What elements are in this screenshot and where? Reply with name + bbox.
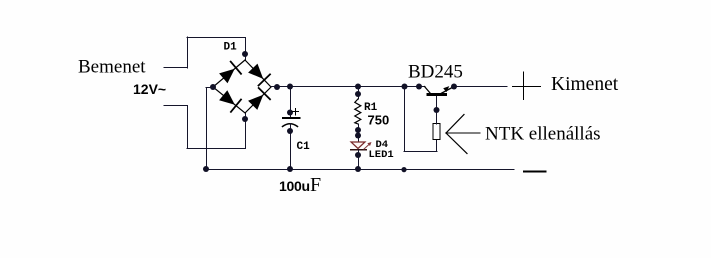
label: Bemenet: [78, 57, 146, 78]
node: transistor emitter junction: [451, 84, 457, 90]
wire: resistor to LED lead: [358, 124, 360, 142]
label: BD245: [408, 62, 463, 83]
label: NTK ellenállás: [485, 124, 601, 145]
svg-text:100u: 100u: [279, 178, 310, 194]
wire: NTC left branch down: [404, 87, 406, 152]
wire: top rail from bridge to transistor base: [271, 86, 425, 88]
resistor R1 zigzag: [355, 99, 361, 124]
node: junction below resistor lower: [355, 133, 361, 139]
node: transistor base wire junction: [416, 84, 422, 90]
label: 12V~: [133, 81, 166, 97]
node: LED cathode junction: [355, 152, 361, 158]
node: junction below resistor upper: [355, 127, 361, 133]
output plus terminal cross: [513, 72, 541, 100]
svg-text:D1: D1: [224, 42, 238, 54]
bridge rectifier D1 diamond outline: [213, 60, 271, 113]
label: 750 value: [368, 113, 390, 128]
node: resistor branch top junction: [355, 84, 361, 90]
label: Kimenet: [551, 74, 619, 95]
bridge diode D1b (top to right): [248, 64, 270, 86]
node: bridge right junction: [274, 84, 280, 90]
wire: down into bridge top vertex: [245, 38, 247, 60]
wire: capacitor branch down: [290, 87, 292, 118]
node: bridge left junction: [210, 84, 216, 90]
label: R1: [364, 102, 378, 114]
svg-text:BD245: BD245: [408, 62, 463, 83]
output minus terminal dash: [524, 171, 546, 173]
wire: bridge left node stub to ground drop: [206, 87, 213, 89]
node: stray junction dot on bottom rail: [401, 167, 406, 172]
wire: NTC bottom link: [404, 151, 437, 153]
LED D4 cathode bar: [351, 149, 367, 151]
annotation arrow to NTK resistor: [446, 115, 480, 154]
svg-text:NTK ellenállás: NTK ellenállás: [485, 124, 601, 145]
wire: top rail from transistor emitter to output: [454, 86, 507, 88]
node: capacitor positive lead junction: [287, 110, 293, 116]
wire: 12V~ terminal down run: [187, 106, 189, 148]
node: bottom rail LED branch junction: [355, 166, 361, 172]
wire: horizontal run to below bridge: [187, 148, 246, 150]
bridge diode D1a (left to top): [219, 62, 241, 84]
wire: Bemenet input terminal stub: [164, 67, 188, 69]
LED D4 emission arrow: [364, 142, 372, 149]
svg-text:750: 750: [368, 113, 390, 128]
node: capacitor bottom lead junction: [287, 128, 293, 134]
svg-text:LED1: LED1: [369, 149, 394, 161]
transistor Q1 base bar: [427, 93, 448, 96]
label: D1: [224, 42, 238, 54]
svg-text:Bemenet: Bemenet: [78, 57, 146, 78]
transistor Q1 emitter lead with arrow: [441, 86, 454, 93]
svg-text:12V~: 12V~: [133, 81, 166, 97]
wire: resistor top lead: [358, 87, 360, 99]
node: bridge top junction: [242, 51, 248, 57]
LED D4 triangle: [351, 142, 365, 149]
capacitor C1 polarity plus sign: [292, 109, 299, 116]
label: LED1: [369, 149, 394, 161]
wire: up into bridge bottom vertex: [245, 113, 247, 148]
transistor Q1 base lead diagonal: [425, 87, 431, 94]
bridge diode D1c (left to bottom): [219, 90, 241, 112]
capacitor C1 curved bottom plate: [283, 124, 298, 127]
wire: NTC resistor bottom lead: [436, 140, 438, 152]
wire: 12V~ input terminal stub: [164, 105, 188, 107]
node: bottom rail capacitor junction: [287, 166, 293, 172]
wire: capacitor bottom lead to rail: [290, 124, 292, 171]
capacitor C1 top plate: [283, 117, 300, 119]
node: collector junction: [434, 107, 440, 113]
wire: NTC resistor top lead / collector: [436, 96, 438, 124]
wire: left vertical drop to bottom rail: [206, 88, 208, 170]
node: capacitor branch top junction: [287, 84, 293, 90]
svg-text:Kimenet: Kimenet: [551, 74, 619, 95]
svg-text:C1: C1: [297, 141, 311, 153]
node: junction above resistor: [355, 91, 361, 97]
svg-text:F: F: [310, 174, 321, 196]
label: 100uF value: [279, 174, 321, 196]
node: bottom rail left junction: [203, 166, 209, 172]
node: NTC branch top junction: [402, 84, 408, 90]
label: D4: [376, 139, 389, 151]
node: bridge bottom junction: [242, 116, 248, 122]
NTK thermistor body (rectangle): [433, 124, 440, 140]
bridge diode D1d (bottom to right): [248, 88, 270, 110]
wire: bottom rail: [206, 169, 514, 171]
wire: LED to bottom rail: [358, 150, 360, 170]
wire: input terminal up to top run: [187, 37, 189, 68]
wire: top horizontal run to bridge top: [187, 37, 246, 39]
label: C1: [297, 141, 311, 153]
